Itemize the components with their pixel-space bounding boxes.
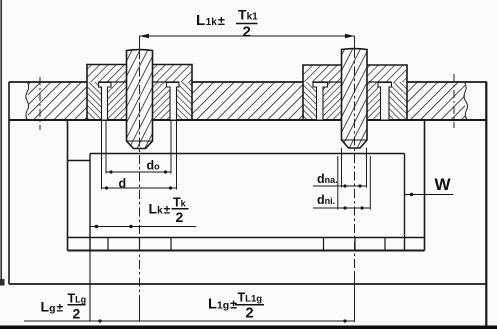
centerline end right (453, 74, 455, 128)
plate bottom edge (9, 119, 487, 121)
svg-text:2: 2 (246, 306, 254, 322)
left boss bushing hatch inner-right (153, 82, 171, 120)
housing outer left edge (67, 120, 69, 251)
dimension L1k line (140, 35, 355, 37)
svg-text:L1k±: L1k± (196, 12, 225, 29)
page edge artifact corner (0, 279, 5, 286)
svg-text:W: W (435, 175, 452, 194)
left break wavy line (26, 82, 29, 120)
left boss bushing hatch outer-right (177, 82, 193, 120)
slot S4 right of bolt B2 (378, 82, 392, 120)
centerline bolt B1 (139, 50, 141, 296)
right boss hatch (303, 65, 407, 82)
page edge artifact bottom band (0, 326, 497, 329)
svg-text:Lk±: Lk± (149, 201, 171, 217)
base bottom edge (9, 283, 487, 285)
left boss hatch (87, 65, 192, 83)
right boss bushing hatch inner-left (323, 82, 342, 120)
plate hatch middle section (192, 82, 303, 120)
left boss outline (87, 65, 192, 121)
svg-text:Tk1: Tk1 (238, 7, 258, 23)
dimension dna extension lines (342, 148, 367, 188)
housing outer right edge (424, 120, 426, 251)
svg-text:do: do (147, 159, 161, 173)
left boss bushing hatch outer-left (87, 82, 102, 120)
dimension L1k left arrow (140, 34, 150, 39)
svg-text:Lg±: Lg± (41, 299, 64, 315)
centerline bolt B2 (354, 49, 356, 272)
dimension L1k right arrow (345, 34, 355, 39)
inner box left edge (89, 154, 91, 251)
dimension dni extension lines (338, 156, 371, 210)
plate top edge (9, 81, 487, 83)
slot S1 left of bolt B1 (99, 82, 112, 120)
dimension W leader (405, 194, 454, 196)
right boss bushing hatch inner-right (367, 82, 381, 120)
dimension d extension lines (102, 120, 177, 190)
dimension d0 extension lines (106, 120, 171, 174)
dimension dna line (313, 185, 367, 187)
svg-text:2: 2 (73, 306, 81, 322)
slot S2 right of bolt B1 (167, 82, 180, 120)
svg-text:2: 2 (243, 24, 251, 41)
dimension Lg L1g baseline (24, 320, 355, 322)
right edge (485, 82, 487, 327)
svg-text:dni.: dni. (317, 193, 335, 207)
svg-text:2: 2 (176, 209, 184, 225)
svg-text:dna.: dna. (317, 172, 338, 186)
dimension Lk line (90, 226, 196, 228)
dimension dni line (313, 207, 370, 209)
svg-text:TLg: TLg (68, 292, 87, 306)
right boss outline (303, 65, 407, 120)
right break wavy line (464, 82, 468, 120)
inner box top (90, 153, 405, 155)
page edge artifact left (0, 0, 2, 285)
svg-text:TL1g: TL1g (238, 291, 263, 305)
foot band dividers (108, 238, 385, 251)
dimension d line (102, 187, 177, 189)
plate hatch left section (28, 82, 87, 120)
housing ledge (68, 160, 91, 162)
plate left edge (8, 82, 10, 284)
hole top lines under bosses (99, 81, 392, 83)
plate hatch right section (407, 82, 465, 120)
centerline end left (39, 77, 41, 130)
svg-text:d: d (119, 177, 127, 191)
bolt B1 body (127, 50, 153, 149)
svg-text:L1g±: L1g± (208, 297, 237, 313)
right boss bushing hatch outer-right (389, 82, 407, 120)
slot S3 left of bolt B2 (313, 82, 328, 120)
foot band top (68, 237, 425, 239)
dimension d0 line (106, 171, 172, 173)
foot band bottom (68, 250, 425, 252)
inner box right edge (404, 154, 406, 251)
svg-text:Tk: Tk (173, 196, 187, 210)
right boss bushing hatch outer-left (303, 82, 317, 120)
bolt B2 body (342, 49, 368, 148)
left boss bushing hatch inner-left (108, 82, 127, 120)
